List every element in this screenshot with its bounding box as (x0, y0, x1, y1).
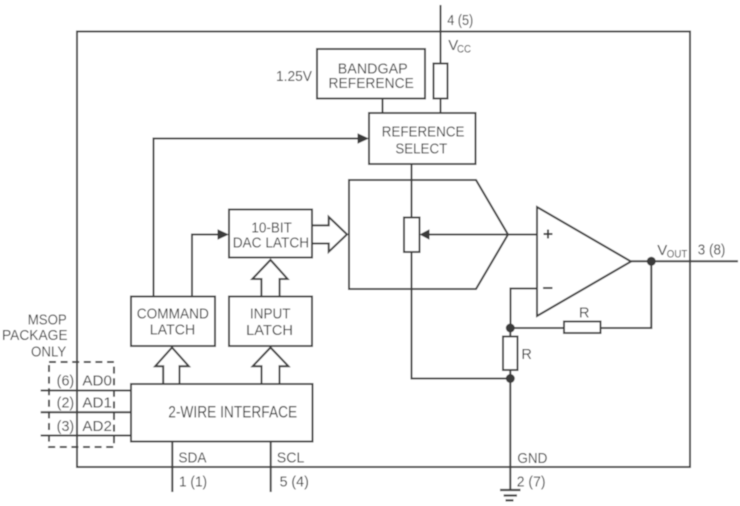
wire op-amp -input feedback (511, 289, 538, 325)
svg-text:SELECT: SELECT (395, 142, 447, 158)
block 2-WIRE INTERFACE (131, 384, 313, 442)
bus arrow DAC LATCH to DAC string (312, 217, 347, 252)
svg-text:(6): (6) (57, 373, 75, 389)
svg-text:PACKAGE: PACKAGE (2, 328, 68, 344)
wire GND (509, 379, 511, 491)
bus arrow INPUT LATCH to DAC LATCH (252, 260, 287, 297)
bus arrow 2-WIRE to COMMAND LATCH (155, 348, 189, 385)
svg-text:LATCH: LATCH (246, 323, 293, 339)
wire DAC string bottom (412, 252, 511, 379)
wire op-amp output (631, 260, 738, 262)
op-amp plus input (543, 230, 553, 289)
svg-text:SDA: SDA (178, 450, 206, 467)
wire R lower to node3 (509, 370, 511, 379)
block 10-BIT DAC LATCH (229, 210, 312, 258)
svg-text:REFERENCE: REFERENCE (329, 76, 414, 92)
arrowhead into REFERENCE SELECT (358, 133, 370, 144)
svg-text:2 (7): 2 (7) (517, 473, 546, 490)
wire node1 to R feedback (510, 327, 564, 329)
svg-text:REFERENCE: REFERENCE (382, 124, 465, 140)
svg-text:R: R (579, 306, 589, 322)
svg-text:BANDGAP: BANDGAP (338, 61, 408, 77)
svg-text:INPUT: INPUT (250, 307, 291, 323)
resistor R lower (503, 337, 518, 371)
wire AD0 (41, 390, 131, 392)
junction node2 output (647, 257, 656, 266)
block INPUT LATCH (229, 297, 312, 347)
wire node1 to R lower (509, 328, 511, 337)
wire R feedback to output (601, 261, 652, 328)
svg-text:CC: CC (457, 44, 471, 56)
MSOP dashed box (49, 362, 114, 447)
wire AD1 (41, 411, 131, 413)
svg-text:5 (4): 5 (4) (280, 474, 309, 491)
svg-text:R: R (521, 347, 531, 363)
svg-text:1 (1): 1 (1) (179, 474, 207, 491)
junction node1 (506, 324, 515, 333)
block COMMAND LATCH (131, 297, 215, 347)
wire AD2 (41, 435, 131, 437)
wire R_VCC to REFERENCE SELECT (440, 99, 442, 114)
junction node3 (506, 374, 515, 383)
wiper wire (429, 234, 509, 236)
svg-text:AD2: AD2 (82, 419, 112, 435)
block BANDGAP REFERENCE U1 (317, 49, 425, 99)
svg-text:ONLY: ONLY (31, 345, 67, 361)
wire BANDGAP to REFERENCE SELECT (382, 99, 384, 114)
DAC resistor string outline (349, 180, 508, 289)
bus arrow 2-WIRE to INPUT LATCH (253, 348, 289, 385)
svg-text:3 (8): 3 (8) (698, 242, 726, 259)
wire VCC pin (440, 5, 442, 64)
wire COMMAND LATCH to DAC LATCH (192, 235, 218, 297)
svg-text:2-WIRE INTERFACE: 2-WIRE INTERFACE (168, 402, 297, 421)
svg-text:MSOP: MSOP (28, 313, 67, 329)
wire REFERENCE SELECT to DAC string (411, 164, 413, 218)
svg-text:4 (5): 4 (5) (447, 12, 473, 29)
svg-text:OUT: OUT (667, 248, 688, 260)
chip boundary (77, 32, 690, 468)
wire SDA pin (171, 442, 173, 493)
svg-text:1.25V: 1.25V (276, 68, 312, 85)
svg-text:AD0: AD0 (82, 373, 112, 389)
svg-text:LATCH: LATCH (150, 322, 195, 338)
resistor R_VCC (434, 64, 448, 99)
svg-text:(2): (2) (57, 395, 75, 411)
wire op-amp +input (508, 234, 537, 236)
arrowhead into DAC LATCH (218, 229, 230, 240)
svg-text:AD1: AD1 (82, 395, 112, 411)
svg-text:GND: GND (517, 450, 547, 467)
block REFERENCE SELECT (369, 113, 476, 164)
resistor R feedback (564, 322, 601, 334)
arrowhead wiper (420, 229, 430, 239)
wire SCL pin (270, 442, 272, 493)
op-amp A1 (537, 207, 631, 316)
ground symbol (500, 490, 521, 500)
wire COMMAND LATCH to REFERENCE SELECT (154, 139, 358, 297)
op-amp minus input (543, 287, 553, 289)
svg-text:SCL: SCL (277, 450, 305, 467)
svg-text:COMMAND: COMMAND (137, 307, 209, 323)
svg-text:DAC LATCH: DAC LATCH (233, 235, 309, 251)
svg-text:(3): (3) (57, 419, 75, 435)
svg-text:10-BIT: 10-BIT (251, 221, 292, 237)
potentiometer R_DAC (404, 218, 420, 253)
